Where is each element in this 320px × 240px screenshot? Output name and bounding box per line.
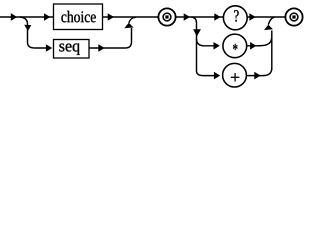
- arrowhead up on right riser: [264, 25, 273, 31]
- circle +: [223, 63, 247, 87]
- wire seq merge curve into main line: [129, 17, 136, 23]
- wire ? exit to bullseye2: [247, 16, 286, 18]
- label *: [233, 44, 237, 50]
- circle *: [223, 34, 247, 58]
- wire left riser continues to + row: [197, 40, 215, 76]
- label +: [231, 73, 239, 81]
- label ?: [234, 10, 238, 22]
- arrowhead down on left outer branch: [24, 25, 31, 31]
- wire branch-down curve to left riser: [192, 17, 197, 40]
- arrowhead after seq: [98, 44, 104, 52]
- label choice: [61, 11, 95, 22]
- wire choice exit to bullseye1: [103, 16, 159, 18]
- box seq: [54, 40, 90, 59]
- bullseye terminal 1 center dot: [165, 15, 168, 18]
- wire entry main line: [0, 16, 21, 18]
- arrowhead before ?: [214, 13, 220, 21]
- arrowhead before seq: [46, 44, 52, 52]
- wire top branch to choice: [21, 16, 53, 18]
- bullseye terminal 1 inner ring: [163, 13, 171, 21]
- wire right riser: [271, 31, 273, 71]
- circle ?: [223, 6, 247, 30]
- wire bullseye1 to branch B and ? circle: [176, 16, 224, 18]
- arrowhead entry: [11, 13, 17, 21]
- arrowhead seq merge up: [124, 23, 133, 29]
- wire * exit curve up to right riser: [247, 38, 272, 46]
- wire right riser merge curve into main line: [268, 17, 275, 25]
- arrowhead after bullseye1: [184, 13, 190, 21]
- arrowhead before +: [214, 72, 220, 80]
- wire seq exit and riser up: [89, 28, 132, 48]
- arrowhead down on left riser: [193, 29, 201, 36]
- label seq: [59, 43, 79, 55]
- bullseye terminal 2 outer: [285, 8, 302, 25]
- box choice: [54, 4, 103, 30]
- arrowhead before choice: [44, 13, 50, 21]
- wire + exit curve up to right riser: [247, 68, 272, 76]
- bullseye terminal 2 center dot: [292, 15, 295, 18]
- arrowhead after *: [250, 42, 256, 50]
- wire branch-down curve to seq rail: [20, 17, 46, 48]
- arrowhead after choice: [108, 13, 114, 21]
- bullseye terminal 2 inner ring: [290, 13, 298, 21]
- wire left riser branch to * row: [197, 39, 215, 46]
- bullseye terminal 1 outer: [158, 8, 175, 25]
- arrowhead after ?: [249, 13, 255, 21]
- arrowhead before *: [214, 42, 220, 50]
- arrowhead after +: [254, 72, 260, 80]
